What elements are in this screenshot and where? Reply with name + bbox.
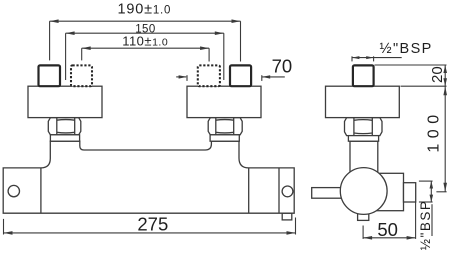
dim 110 extension left: [81, 48, 83, 60]
dim 150 extension left: [65, 33, 67, 80]
dim 150 line: [66, 32, 224, 34]
right housing seam: [248, 168, 250, 213]
dim 20 top extension: [375, 64, 447, 66]
dim 275 extension right: [295, 218, 297, 235]
dim 110 line: [82, 47, 209, 49]
left inlet connector (solid): [39, 65, 61, 86]
left hex nut: [48, 118, 81, 135]
dim 70 left arrow: [176, 76, 186, 78]
right collar: [210, 135, 239, 141]
dim 275 extension left: [3, 219, 5, 235]
right hex nut: [208, 118, 242, 135]
left wall mounting block: [28, 86, 102, 117]
dim 100 line: [444, 86, 446, 192]
control knob circle: [340, 168, 387, 215]
end cap divider left: [40, 168, 42, 213]
side outlet box: [374, 173, 404, 210]
dim 50 extension left: [362, 226, 364, 239]
dim 275 line: [4, 232, 296, 234]
svg-text:70: 70: [272, 56, 293, 77]
outlet thread dim line: [430, 181, 432, 202]
left collar: [50, 135, 79, 141]
bar body outline (front view): [3, 141, 294, 213]
side lever: [312, 188, 344, 199]
dim 190 extension right: [240, 21, 242, 61]
right inlet connector (solid): [230, 65, 251, 86]
dim 190 extension left: [49, 21, 51, 60]
left inlet connector (dashed alt): [71, 65, 92, 86]
right wall mounting block: [187, 86, 261, 117]
BSP top dim line: [352, 57, 402, 59]
side collar: [348, 136, 378, 142]
side bottom tab: [358, 214, 369, 221]
right outlet block divider: [278, 168, 280, 213]
outlet thread dim extensions: [419, 180, 433, 182]
svg-text:100: 100: [426, 109, 443, 152]
svg-text:50: 50: [377, 219, 398, 240]
dim 20/100 shared extension: [401, 85, 447, 87]
svg-text:190±1.0: 190±1.0: [118, 2, 172, 18]
right inlet connector (dashed alt): [198, 65, 220, 86]
svg-text:275: 275: [137, 214, 168, 235]
dim 110 extension right: [208, 48, 210, 61]
outlet elbow tab (front view bottom right): [282, 213, 292, 220]
side outlet cap: [404, 183, 416, 202]
dim 20 line: [444, 65, 446, 86]
dim 50 line: [363, 237, 416, 239]
svg-text:20: 20: [429, 66, 446, 83]
dim 150 extension right: [223, 33, 225, 80]
right outlet screw hole: [282, 186, 293, 197]
svg-text:½"BSP: ½"BSP: [380, 41, 433, 57]
left end cap screw hole: [8, 185, 19, 196]
dim 50 extension right: [415, 201, 417, 239]
dim 190 line: [50, 20, 241, 22]
side hex nut: [345, 118, 383, 136]
dim 70 right arrow and leader: [261, 75, 263, 81]
side inlet connector: [353, 65, 374, 86]
BSP bottom label underline: [431, 204, 433, 236]
svg-text:½"BSP: ½"BSP: [418, 200, 433, 251]
side body column: [350, 141, 378, 175]
dim 100 bottom extension: [436, 191, 446, 193]
side wall mounting block: [326, 86, 400, 117]
svg-text:110±1.0: 110±1.0: [122, 34, 168, 49]
